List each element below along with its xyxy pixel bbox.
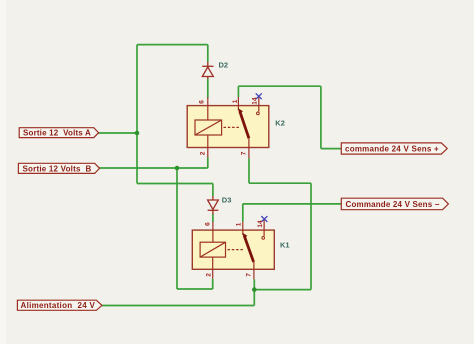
svg-text:K2: K2 bbox=[275, 119, 285, 128]
junction node Sortie A bbox=[135, 131, 140, 136]
wire net Sortie B: up to K1 pin 2 bbox=[212, 279, 214, 289]
svg-text:1: 1 bbox=[235, 222, 242, 226]
wire net Alimentation: top horizontal to K2 pin 7 bbox=[249, 182, 311, 184]
wire D2 anode to K2 pin 6 bbox=[207, 79, 209, 99]
svg-text:D3: D3 bbox=[222, 196, 232, 205]
K2 pin 7 bbox=[248, 138, 250, 158]
wire net Sortie A: down to D2 cathode bbox=[207, 45, 209, 62]
svg-text:K1: K1 bbox=[280, 240, 290, 249]
svg-text:Sortie 12 Volts A: Sortie 12 Volts A bbox=[23, 129, 91, 138]
K1 pin 7 bbox=[253, 262, 255, 279]
K1 actuator dashed link bbox=[228, 249, 244, 251]
svg-text:1: 1 bbox=[232, 99, 239, 103]
wire net Alimentation: junction to right riser bbox=[254, 289, 311, 291]
K1 pin 2 bbox=[212, 257, 214, 279]
K1 pin 6 bbox=[212, 222, 214, 242]
K1 pin 14 no-connect cross bbox=[261, 216, 267, 222]
svg-text:Sortie 12 Volts B: Sortie 12 Volts B bbox=[23, 164, 92, 173]
K2 pin 14 NO contact bbox=[257, 112, 260, 115]
K1 pin 1 bbox=[242, 222, 244, 235]
K2 actuator dashed link bbox=[224, 126, 240, 128]
K1 pin 14 stub bbox=[263, 220, 265, 236]
svg-text:D2: D2 bbox=[219, 61, 229, 70]
wire net Sortie A: flag tip to junction bbox=[99, 132, 138, 134]
net flag Sortie 12 Volts A bbox=[19, 128, 98, 138]
svg-text:14: 14 bbox=[252, 97, 259, 105]
K1 body bbox=[192, 230, 274, 269]
svg-text:6: 6 bbox=[199, 100, 206, 104]
K2 pin 2 bbox=[207, 135, 209, 158]
K2 pin 1 bbox=[237, 97, 239, 111]
K2 switch arm bbox=[240, 111, 249, 138]
wire net Sortie B: vertical down from junction bbox=[176, 168, 178, 289]
svg-text:Alimentation 24 V: Alimentation 24 V bbox=[21, 301, 96, 310]
wire net Sortie B: horizontal to K1 pin 2 bbox=[177, 288, 213, 290]
wire net Alimentation: flag to riser bbox=[102, 305, 254, 307]
net flag Sortie 12 Volts B bbox=[18, 163, 99, 173]
wire net Sortie B: up to K2 pin 2 bbox=[207, 157, 209, 168]
net flag Alimentation 24 V bbox=[17, 300, 102, 310]
net flag commande 24 V Sens + bbox=[341, 143, 447, 154]
net flag Commande 24 V Sens - bbox=[341, 198, 448, 210]
wire net commande +: K2 pin 1 up bbox=[237, 86, 239, 97]
K2 body bbox=[187, 106, 269, 148]
wire net Sortie A: top horizontal bbox=[137, 44, 208, 46]
wire net commande +: vertical down bbox=[320, 86, 322, 148]
junction node Alimentation / K1 pin 7 bbox=[252, 287, 257, 292]
wire net Sortie B: flag to K2 pin 2 corner bbox=[100, 167, 208, 169]
wire net Alimentation: right riser up bbox=[310, 183, 312, 289]
K2 pin 14 no-connect cross bbox=[256, 93, 262, 99]
K2 pin 14 stub bbox=[258, 97, 260, 112]
junction node Sortie B bbox=[175, 166, 180, 171]
wire net Sortie A: left vertical bbox=[136, 45, 138, 184]
K1 switch arm bbox=[244, 235, 254, 262]
wire D3 cathode to K1 pin 6 bbox=[212, 214, 214, 222]
K1 coil bbox=[200, 242, 225, 257]
svg-text:7: 7 bbox=[245, 273, 252, 277]
svg-text:7: 7 bbox=[240, 151, 247, 155]
svg-text:2: 2 bbox=[199, 151, 206, 155]
diode D3 bbox=[208, 196, 219, 215]
wire net Alimentation: riser to junction bbox=[253, 290, 255, 306]
svg-text:Commande 24 V Sens −: Commande 24 V Sens − bbox=[346, 200, 440, 209]
wire net Sortie A: down to D3 anode bbox=[212, 184, 214, 197]
wire net commande +: horizontal right bbox=[238, 85, 321, 87]
svg-text:6: 6 bbox=[205, 222, 212, 226]
wire net Alimentation: junction up to K1 pin 7 bbox=[253, 279, 255, 289]
diode D2 bbox=[202, 62, 213, 79]
relay K1 bbox=[192, 216, 289, 279]
svg-text:14: 14 bbox=[257, 220, 264, 228]
wire net commande +: into flag bbox=[321, 148, 341, 150]
K2 coil bbox=[195, 120, 222, 135]
relay K2 bbox=[187, 93, 285, 158]
wire net Commande -: K1 pin 1 up bbox=[242, 204, 244, 222]
svg-text:commande 24 V Sens +: commande 24 V Sens + bbox=[345, 144, 439, 153]
svg-text:2: 2 bbox=[205, 273, 212, 277]
wire net Alimentation: up to K2 pin 7 bbox=[248, 158, 250, 183]
wire net Commande -: horizontal into flag bbox=[243, 203, 341, 205]
K2 pin 6 bbox=[207, 97, 209, 120]
K1 pin 14 NO contact bbox=[262, 237, 265, 240]
wire net Sortie A: lower horizontal to D3 bbox=[137, 183, 213, 185]
